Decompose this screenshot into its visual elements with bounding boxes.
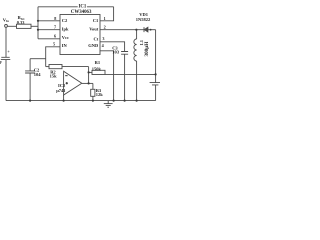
wire output rail <box>155 30 157 83</box>
wire pin2 (switch node) <box>100 29 144 31</box>
svg-text:3: 3 <box>102 36 104 41</box>
svg-text:1: 1 <box>104 16 106 21</box>
svg-text:0.33: 0.33 <box>17 20 25 25</box>
svg-text:12k: 12k <box>96 92 104 97</box>
wire pin3 <box>100 42 125 52</box>
wire L1 bottom <box>136 61 138 101</box>
ground <box>104 101 113 108</box>
svg-text:μ741: μ741 <box>56 88 66 93</box>
capacitor C2 <box>25 71 35 73</box>
svg-text:GND: GND <box>88 43 99 48</box>
capacitor C3 <box>121 52 128 55</box>
junction C2 ground rail <box>29 100 31 102</box>
junction L1 switch node <box>135 29 137 31</box>
capacitor C-out <box>150 83 160 85</box>
op-amp IC2 <box>64 71 82 95</box>
svg-text:5: 5 <box>53 42 55 47</box>
svg-text:6: 6 <box>54 34 56 39</box>
svg-text:Ipk: Ipk <box>62 26 69 31</box>
wire op-amp plus corner to ground <box>63 95 65 101</box>
wire node X vertical <box>37 7 39 39</box>
node Vin terminal <box>5 25 8 28</box>
svg-text:R1: R1 <box>95 60 101 65</box>
svg-text:103: 103 <box>112 50 120 55</box>
labels <box>0 4 151 97</box>
wire C3 bottom <box>124 54 126 100</box>
svg-text:F: F <box>0 60 2 65</box>
wire C2 top <box>29 59 31 71</box>
wire L1 top <box>136 30 138 39</box>
svg-text:1N5822: 1N5822 <box>136 17 151 22</box>
svg-text:Vout: Vout <box>89 27 99 32</box>
wire pin1 <box>100 7 114 21</box>
wire pin5 branch to C2 <box>30 58 46 60</box>
capacitor C-in (electrolytic) <box>1 57 11 59</box>
svg-text:CW34063: CW34063 <box>71 10 92 15</box>
svg-text:7: 7 <box>54 25 56 30</box>
svg-text:IN: IN <box>62 43 68 48</box>
diode VD1 <box>144 27 156 32</box>
wire R3 top <box>92 83 94 89</box>
wire node A vertical <box>88 67 90 84</box>
wire R1 to output rail <box>105 73 156 75</box>
wire R1 left <box>89 71 92 73</box>
wire Vin to Rsc <box>7 25 16 27</box>
resistor R2 <box>49 65 62 69</box>
junction op-amp input ground rail <box>63 100 65 102</box>
junction C3 ground rail <box>124 100 126 102</box>
wire R2 to node A <box>62 66 89 68</box>
junction node X pin8 <box>37 20 39 22</box>
wire R3 bottom <box>92 96 94 100</box>
svg-text:Ct: Ct <box>94 37 99 42</box>
junction node A output <box>88 82 90 84</box>
junction R1 output rail <box>155 73 157 75</box>
resistor Rsc <box>17 24 32 28</box>
resistor R1 <box>92 70 105 74</box>
svg-text:2: 2 <box>104 25 106 30</box>
wire pin6 <box>38 38 60 40</box>
junction R3 ground rail <box>92 100 94 102</box>
junction diode output wire <box>150 29 152 31</box>
svg-text:8: 8 <box>54 16 56 21</box>
svg-text:IC1: IC1 <box>79 4 87 9</box>
svg-text:VIn: VIn <box>3 17 9 23</box>
wire pin5 <box>46 47 60 67</box>
svg-text:104: 104 <box>34 72 42 77</box>
wire op-amp output <box>82 82 93 84</box>
wire pin7 <box>38 29 60 31</box>
wire top rail <box>38 6 114 8</box>
IC1 box <box>60 15 100 55</box>
svg-text:150k: 150k <box>92 67 102 72</box>
svg-text:Vcc: Vcc <box>62 35 69 40</box>
svg-text:C1: C1 <box>93 18 99 23</box>
junction pin4 ground rail <box>113 100 115 102</box>
wire input cap bottom <box>5 60 7 101</box>
wire Rsc to node X <box>31 25 38 27</box>
wire pin8 <box>38 20 60 22</box>
junction L1 ground rail <box>136 100 138 102</box>
junction node A R1 <box>88 71 90 73</box>
wire output rail lower <box>155 85 157 101</box>
svg-text:C2: C2 <box>62 18 68 23</box>
svg-text:300μH: 300μH <box>144 42 150 57</box>
wire C2 bottom <box>29 73 31 101</box>
wire pin4 (GND) <box>100 51 114 101</box>
wire R2 left <box>46 66 49 68</box>
wire input cap top <box>5 27 7 57</box>
junction node X pin7 <box>37 29 39 31</box>
svg-text:15k: 15k <box>50 73 58 78</box>
svg-text:+: + <box>7 49 10 54</box>
resistor R3 <box>91 89 95 96</box>
inductor L1 <box>134 39 137 61</box>
wire bottom rail <box>6 100 156 102</box>
